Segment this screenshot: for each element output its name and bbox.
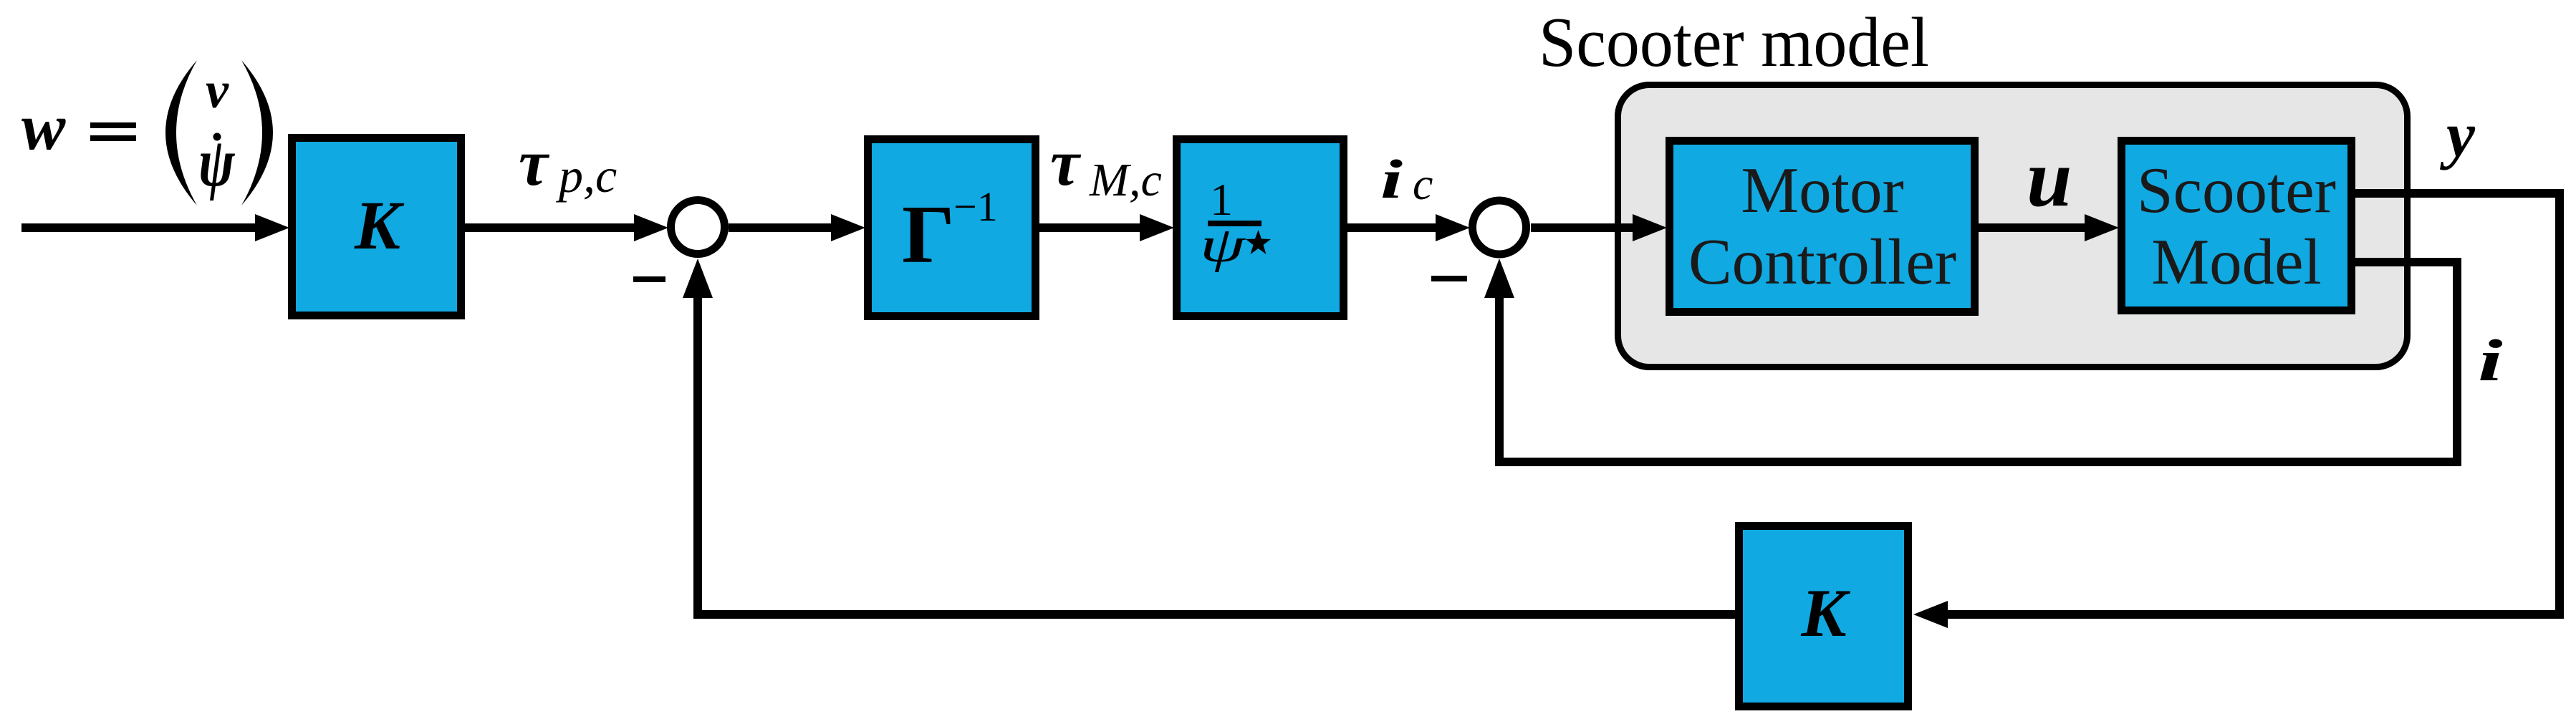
- svg-text:τ: τ: [519, 126, 550, 199]
- svg-text:i: i: [1380, 149, 1403, 210]
- label tau_M,c: [1050, 126, 1162, 206]
- svg-text:τ: τ: [1050, 126, 1082, 199]
- svg-text:Scooter model: Scooter model: [1539, 4, 1929, 82]
- node w: input label w = (v ; psidot): [21, 60, 273, 206]
- minus sign at junction 2: [1431, 276, 1467, 281]
- svg-text:i: i: [2478, 327, 2503, 393]
- wire: y feedback (right, down, left into bottom K): [1943, 193, 2560, 614]
- block 1/psi*: [1177, 140, 1344, 317]
- svg-text:Motor: Motor: [1741, 154, 1904, 226]
- svg-text:v: v: [206, 62, 229, 119]
- wire: Gamma^-1 to 1/psi*: [1039, 223, 1143, 232]
- wire: junction 2 to Motor Controller: [1531, 223, 1637, 232]
- svg-text:−1: −1: [953, 183, 998, 230]
- block Motor Controller: [1670, 141, 1975, 312]
- label tau_p,c: [519, 126, 617, 203]
- wire: input into K: [21, 223, 258, 232]
- wire: i feedback (right, down, left, up into junction 2): [1499, 262, 2457, 462]
- svg-text:Controller: Controller: [1688, 226, 1956, 298]
- svg-text:M,c: M,c: [1089, 154, 1162, 206]
- svg-text:Scooter: Scooter: [2137, 154, 2336, 226]
- wire: K to summing junction 1: [465, 223, 638, 232]
- wire: bottom K output (left, up into junction 1): [698, 294, 1735, 614]
- svg-text:K: K: [1800, 575, 1850, 651]
- svg-text:p,c: p,c: [556, 148, 617, 203]
- svg-text:w: w: [21, 90, 66, 163]
- summing junction 2: [1473, 201, 1527, 254]
- svg-text:ψ: ψ: [1200, 216, 1246, 272]
- svg-text:Γ: Γ: [902, 189, 955, 281]
- block Scooter Model: [2122, 141, 2352, 311]
- block Gamma^-1: [868, 140, 1036, 317]
- label i_c: [1380, 149, 1433, 210]
- wire: Motor Controller to Scooter Model: [1979, 223, 2088, 232]
- svg-text:u: u: [2027, 132, 2072, 223]
- wire: 1/psi* to summing junction 2: [1347, 223, 1440, 232]
- block K (feedback gain): [1739, 526, 1908, 707]
- minus sign at junction 1: [633, 276, 665, 282]
- svg-text:K: K: [354, 187, 405, 264]
- svg-text:Model: Model: [2151, 226, 2322, 298]
- block K (feedforward controller): [292, 138, 461, 316]
- svg-text:c: c: [1413, 158, 1433, 209]
- scooter model container (gray rounded box): [1618, 85, 2408, 367]
- summing junction 1: [671, 201, 725, 254]
- wire: junction 1 to Gamma^-1: [729, 223, 835, 232]
